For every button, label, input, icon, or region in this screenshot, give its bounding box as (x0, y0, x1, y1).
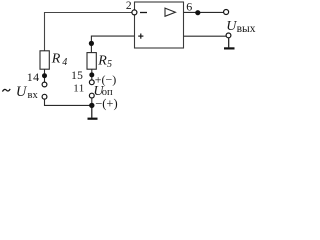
svg-text:2: 2 (126, 0, 132, 12)
ground (right) (224, 38, 235, 49)
svg-text:14: 14 (27, 70, 40, 84)
label +(−) (95, 72, 117, 86)
junction dot on output wire (195, 10, 200, 15)
terminal: output lower circle (226, 33, 231, 38)
resistor R5 (87, 53, 96, 70)
svg-text:вх: вх (28, 90, 39, 101)
svg-text:11: 11 (73, 82, 85, 94)
lead R5 bottom to pin15 terminal (91, 69, 93, 80)
op-amp U1 body (135, 2, 184, 48)
svg-text:15: 15 (71, 70, 83, 82)
wire: R5 top to noninverting input (91, 36, 134, 53)
terminal pin 11 circle (89, 93, 94, 103)
label Uвх (16, 84, 39, 101)
resistor R4 (40, 51, 49, 82)
label 2 (126, 0, 132, 12)
svg-text:оп: оп (102, 87, 113, 98)
label 11 (73, 82, 85, 94)
ground (left) (88, 105, 98, 118)
svg-text:U: U (16, 84, 28, 100)
label R4 (51, 51, 68, 68)
junction dot pin 14 (42, 73, 47, 78)
label Uвых (226, 19, 256, 35)
terminal: input upper circle (42, 82, 47, 87)
label Uоп (93, 84, 113, 99)
label −(+) (95, 96, 117, 110)
svg-text:R: R (97, 54, 107, 69)
junction dot bottom rail (89, 103, 94, 108)
wire: output pin 6 (184, 11, 224, 13)
svg-text:вых: вых (237, 23, 256, 35)
svg-text:+(−): +(−) (95, 72, 117, 86)
svg-text:R: R (51, 51, 61, 66)
junction dot on R5 top lead (89, 41, 94, 46)
junction dot pin 15 (89, 72, 94, 77)
terminal: input lower circle (42, 94, 47, 99)
pin 2 input circle on op-amp edge (132, 10, 137, 15)
label 6 (186, 0, 192, 13)
terminal: output upper circle (224, 10, 229, 15)
svg-text:6: 6 (186, 0, 192, 13)
svg-text:5: 5 (107, 59, 112, 70)
wire: bottom rail from input lower terminal to junction (45, 99, 92, 105)
wire: R4 top to inverting input (top net) (45, 13, 132, 52)
label R5 (97, 54, 112, 71)
svg-text:4: 4 (62, 57, 67, 68)
wire: output common (184, 35, 227, 37)
label 14 (27, 70, 40, 84)
label 15 (71, 70, 83, 82)
svg-text:U: U (226, 19, 237, 34)
terminal pin 15 circle (89, 80, 94, 85)
label ~ (2, 89, 10, 92)
